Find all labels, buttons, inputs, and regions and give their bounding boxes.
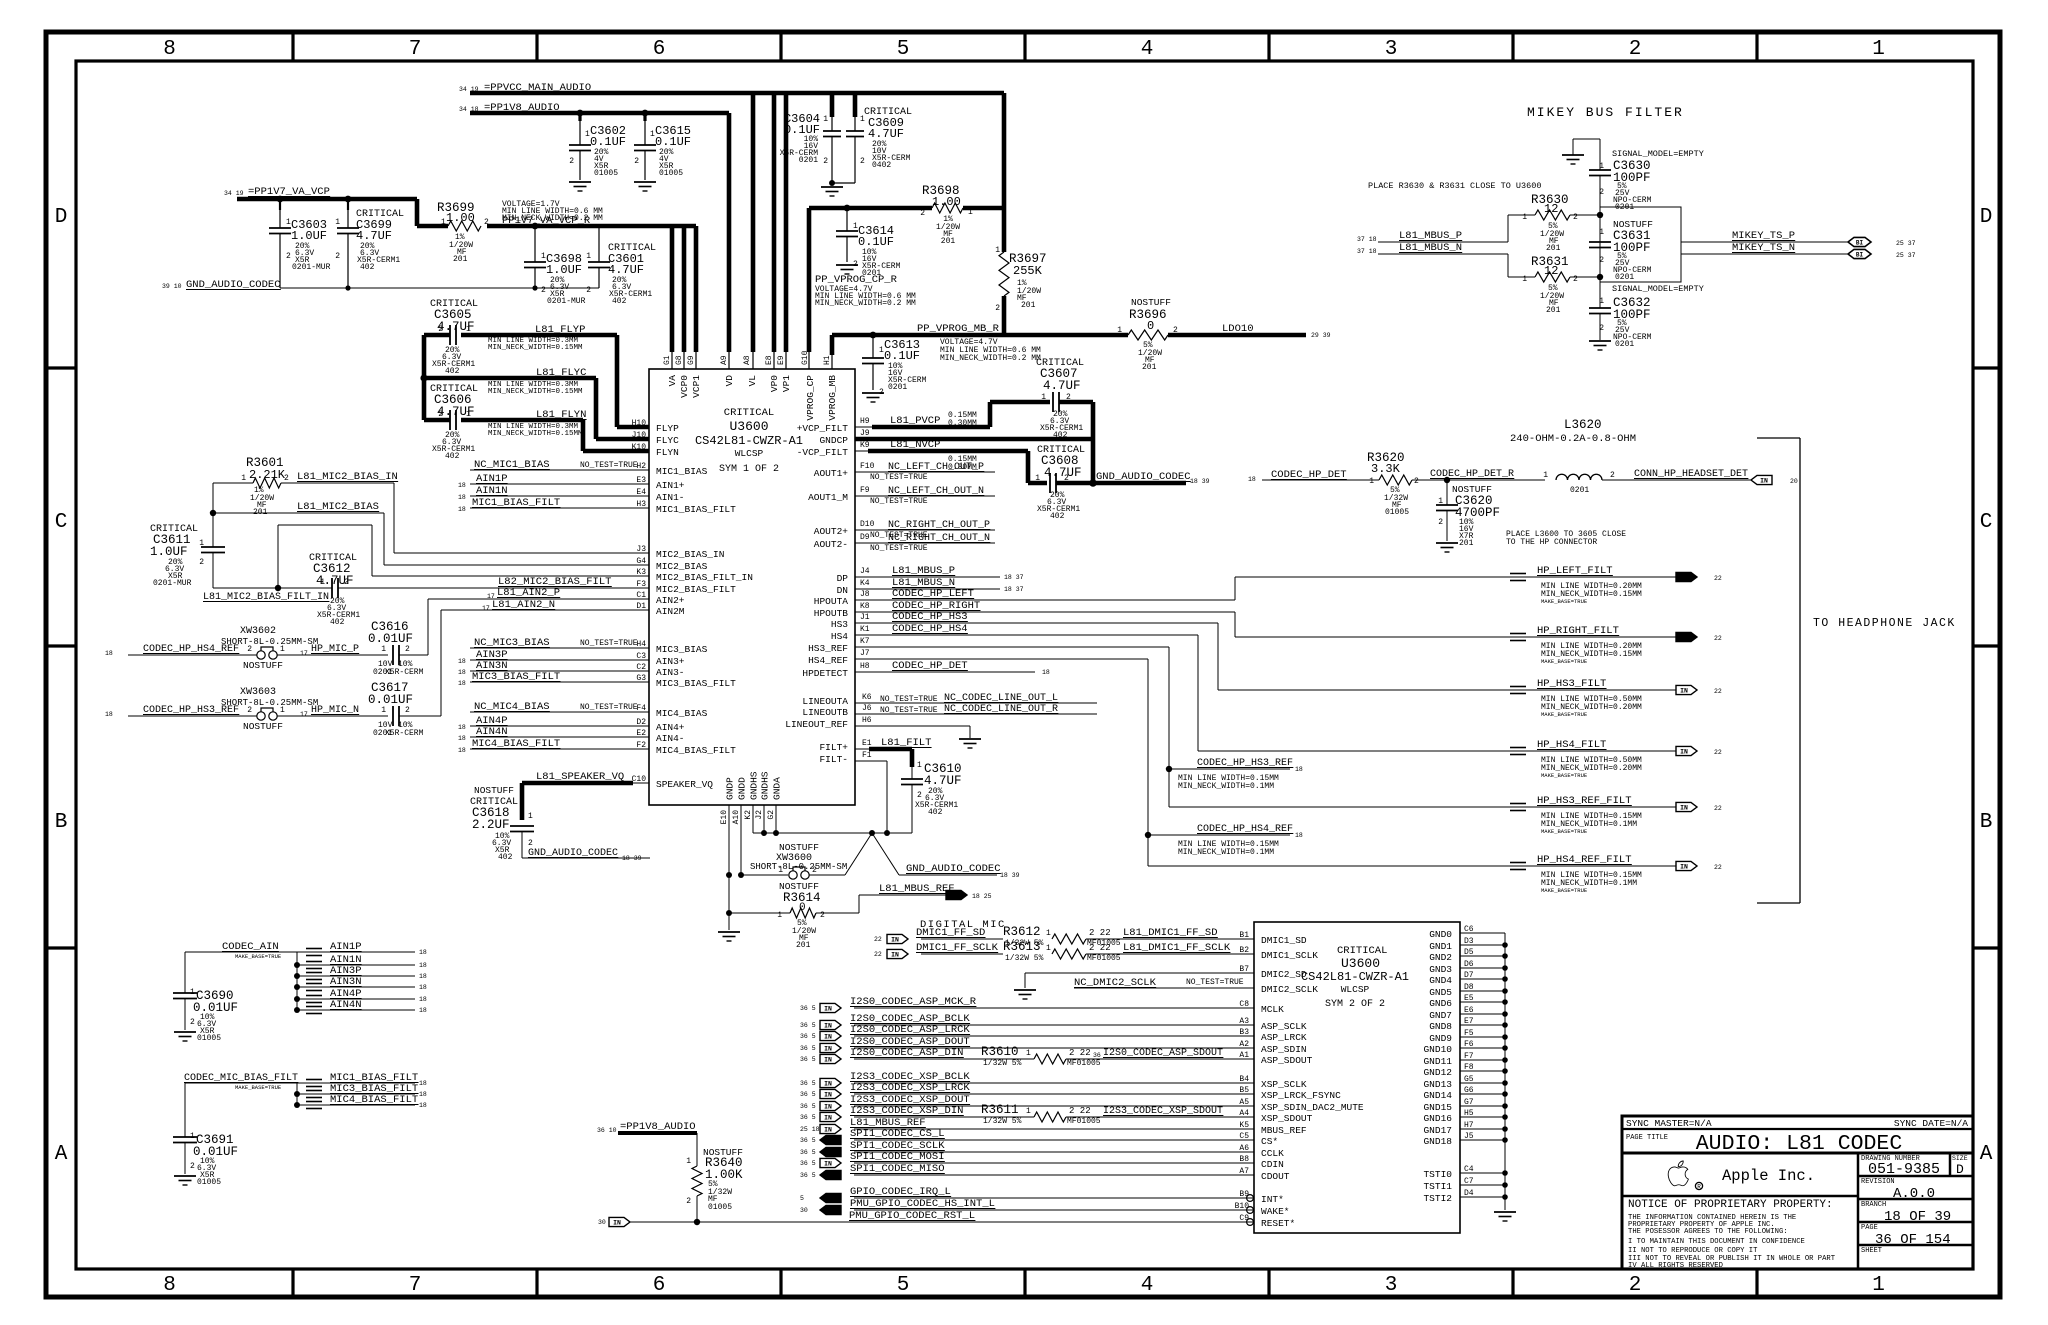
ground for C3613	[862, 392, 884, 394]
net HP_HS3_REF_FILT	[1169, 806, 1676, 808]
svg-text:D: D	[1980, 206, 1993, 229]
svg-text:18: 18	[419, 1080, 427, 1087]
svg-text:MIN_NECK_WIDTH=0.1MM: MIN_NECK_WIDTH=0.1MM	[1178, 782, 1274, 791]
svg-text:2: 2	[1414, 477, 1419, 486]
svg-text:K2: K2	[744, 810, 753, 820]
svg-text:IV ALL RIGHTS RESERVED: IV ALL RIGHTS RESERVED	[1628, 1262, 1723, 1270]
svg-text:2: 2	[190, 1162, 195, 1171]
svg-text:1: 1	[1543, 471, 1548, 480]
capacitor C3691	[184, 1083, 186, 1137]
svg-text:B: B	[1980, 811, 1993, 834]
net HP_HS4_FILT	[1197, 635, 1199, 751]
svg-text:2: 2	[1438, 518, 1443, 527]
net L82_MIC2_BIAS_FILT	[338, 587, 649, 589]
svg-text:XW3603: XW3603	[240, 687, 276, 698]
svg-text:8: 8	[163, 1274, 176, 1297]
svg-text:H6: H6	[862, 716, 872, 725]
svg-text:0: 0	[1147, 319, 1154, 333]
ground for LINEOUT_REF	[959, 738, 981, 740]
capacitor C3602	[577, 110, 584, 117]
svg-text:MIN_NECK_WIDTH=0.15MM: MIN_NECK_WIDTH=0.15MM	[488, 430, 583, 438]
svg-text:4.7UF: 4.7UF	[868, 127, 904, 141]
svg-text:2 22: 2 22	[1089, 928, 1111, 938]
svg-text:5: 5	[897, 1274, 910, 1297]
svg-text:1: 1	[860, 115, 865, 124]
svg-text:GND3: GND3	[1429, 964, 1452, 975]
svg-text:1: 1	[466, 325, 471, 334]
net CODEC_HP_HS4_REF branch	[1147, 659, 1149, 866]
svg-text:SIGNAL_MODEL=EMPTY: SIGNAL_MODEL=EMPTY	[1612, 149, 1704, 159]
svg-text:TSTI0: TSTI0	[1423, 1169, 1452, 1180]
ground for C3604 C3609	[821, 186, 843, 188]
svg-text:MIC4_BIAS: MIC4_BIAS	[656, 708, 708, 719]
svg-text:D: D	[55, 206, 68, 229]
svg-text:2: 2	[247, 645, 252, 654]
wire PP1V7 corner to R3699	[415, 199, 420, 226]
net AIN3N stub	[294, 984, 300, 990]
AIN collector	[296, 952, 298, 1010]
svg-text:VA: VA	[667, 375, 678, 387]
svg-text:NOSTUFF: NOSTUFF	[243, 721, 283, 732]
svg-text:MIN_NECK_WIDTH=0.1MM: MIN_NECK_WIDTH=0.1MM	[1178, 848, 1274, 857]
svg-text:WLCSP: WLCSP	[1341, 984, 1370, 995]
net NC_MIC1_BIAS	[470, 469, 649, 471]
svg-text:X5R-CERM: X5R-CERM	[385, 668, 424, 677]
wire VL supply drop	[751, 93, 756, 352]
svg-text:SIGNAL_MODEL=EMPTY: SIGNAL_MODEL=EMPTY	[1612, 284, 1704, 294]
net MIKEY_TS_N	[1681, 253, 1848, 255]
svg-text:18 39: 18 39	[1000, 872, 1020, 879]
svg-text:01005: 01005	[708, 1203, 732, 1212]
svg-text:GND12: GND12	[1423, 1067, 1452, 1078]
svg-text:39 10: 39 10	[162, 283, 182, 290]
wire C3604/C3609 ground join	[832, 182, 855, 184]
svg-text:K4: K4	[860, 579, 870, 588]
svg-text:R3612: R3612	[1003, 925, 1041, 939]
svg-text:2: 2	[541, 286, 546, 295]
svg-text:MIN_NECK_WIDTH=0.15MM: MIN_NECK_WIDTH=0.15MM	[488, 344, 583, 352]
svg-text:A9: A9	[720, 355, 729, 365]
svg-text:H9: H9	[860, 417, 870, 426]
svg-text:2: 2	[1629, 1274, 1642, 1297]
svg-text:XSP_SDIN_DAC2_MUTE: XSP_SDIN_DAC2_MUTE	[1261, 1102, 1364, 1113]
svg-text:GND11: GND11	[1423, 1056, 1452, 1067]
svg-text:4: 4	[1141, 38, 1154, 61]
svg-text:DMIC2_SCLK: DMIC2_SCLK	[1261, 984, 1318, 995]
svg-text:F10: F10	[860, 462, 875, 471]
svg-text:IN: IN	[613, 1219, 621, 1226]
svg-text:MIC3_BIAS_FILT: MIC3_BIAS_FILT	[656, 678, 736, 689]
svg-text:201: 201	[1142, 363, 1157, 372]
svg-text:CRITICAL: CRITICAL	[724, 407, 774, 419]
svg-text:GNDHS: GNDHS	[749, 771, 760, 800]
svg-text:1: 1	[381, 645, 386, 654]
svg-text:1: 1	[995, 246, 1000, 255]
svg-text:6: 6	[653, 1274, 666, 1297]
svg-text:MAKE_BASE=TRUE: MAKE_BASE=TRUE	[1541, 598, 1588, 605]
svg-text:K8: K8	[860, 602, 870, 611]
svg-text:402: 402	[1050, 512, 1065, 521]
net PP_VPROG_MB_R	[832, 333, 1128, 338]
svg-text:3: 3	[1385, 1274, 1398, 1297]
svg-text:1: 1	[1872, 38, 1885, 61]
svg-text:SPEAKER_VQ: SPEAKER_VQ	[656, 779, 713, 790]
svg-text:D: D	[1956, 1162, 1964, 1177]
svg-text:1/32W 5%: 1/32W 5%	[1005, 954, 1044, 963]
svg-text:2: 2	[820, 911, 825, 920]
Apple logo	[1668, 1161, 1688, 1186]
svg-text:C: C	[1980, 511, 1993, 534]
ground for sym2	[1494, 1211, 1516, 1213]
svg-text:7: 7	[409, 38, 422, 61]
svg-text:25 18: 25 18	[800, 1126, 820, 1133]
svg-text:36 5: 36 5	[800, 1114, 816, 1121]
svg-text:18 39: 18 39	[1190, 478, 1210, 485]
svg-text:ASP_SCLK: ASP_SCLK	[1261, 1021, 1307, 1032]
wire GNDP GNDD drops	[728, 805, 730, 930]
svg-text:D9: D9	[860, 533, 870, 542]
svg-text:J10: J10	[632, 431, 647, 440]
svg-text:201: 201	[453, 255, 468, 264]
svg-text:PAGE: PAGE	[1861, 1224, 1878, 1232]
svg-text:GND18: GND18	[1423, 1136, 1452, 1147]
net AIN4N stub	[294, 1007, 300, 1013]
capacitor C3690	[184, 952, 186, 993]
svg-text:VCP0: VCP0	[679, 375, 690, 398]
svg-text:NOSTUFF: NOSTUFF	[779, 842, 819, 853]
svg-text:DMIC1_SD: DMIC1_SD	[1261, 935, 1307, 946]
net NC_MIC3_BIAS	[470, 647, 649, 649]
svg-text:0201: 0201	[1615, 273, 1634, 282]
svg-text:2: 2	[1573, 275, 1578, 284]
svg-text:AUDIO: L81 CODEC: AUDIO: L81 CODEC	[1696, 1132, 1902, 1156]
svg-text:1: 1	[280, 706, 285, 715]
svg-text:2: 2	[1573, 213, 1578, 222]
capacitor C3610	[911, 767, 913, 779]
svg-text:1/32W 5%: 1/32W 5%	[983, 1117, 1022, 1126]
net NC_DMIC2_SCLK and ground	[1024, 973, 1026, 988]
title block drawing number cell	[1858, 1175, 1973, 1178]
svg-text:18: 18	[458, 680, 466, 687]
svg-text:PAGE TITLE: PAGE TITLE	[1626, 1134, 1668, 1142]
svg-text:0201-MUR: 0201-MUR	[547, 297, 586, 306]
svg-text:CDIN: CDIN	[1261, 1159, 1284, 1170]
svg-text:2 22: 2 22	[1069, 1048, 1091, 1058]
svg-text:GNDCP: GNDCP	[819, 435, 848, 446]
svg-text:0.01UF: 0.01UF	[368, 632, 413, 646]
svg-text:IN: IN	[824, 1103, 832, 1110]
svg-text:LINEOUTA: LINEOUTA	[802, 696, 848, 707]
svg-text:CDOUT: CDOUT	[1261, 1171, 1290, 1182]
svg-text:01005: 01005	[197, 1178, 221, 1187]
svg-text:01005: 01005	[594, 169, 618, 178]
svg-text:AIN1+: AIN1+	[656, 480, 685, 491]
svg-text:IN: IN	[824, 1045, 832, 1052]
svg-text:1: 1	[777, 911, 782, 920]
ground for C3614	[836, 264, 858, 266]
svg-text:22: 22	[1714, 635, 1722, 642]
svg-text:20: 20	[1790, 478, 1798, 485]
svg-text:1: 1	[335, 218, 340, 227]
svg-text:2 22: 2 22	[1069, 1106, 1091, 1116]
capacitor C3699	[345, 196, 352, 203]
svg-text:0.01UF: 0.01UF	[368, 693, 413, 707]
svg-text:E9: E9	[777, 355, 786, 365]
svg-text:DMIC2_SD: DMIC2_SD	[1261, 969, 1307, 980]
svg-text:R: R	[1697, 1184, 1701, 1191]
svg-text:VP0: VP0	[769, 375, 780, 392]
net MIC1_BIAS_FILT stub	[297, 1082, 415, 1084]
svg-text:VPROG_MB: VPROG_MB	[827, 375, 838, 421]
ground above C3630	[1562, 154, 1584, 156]
svg-text:NOSTUFF: NOSTUFF	[243, 660, 283, 671]
svg-text:BI: BI	[1856, 239, 1864, 246]
svg-text:201: 201	[1546, 306, 1561, 315]
svg-text:1: 1	[686, 1157, 691, 1166]
svg-text:37 18: 37 18	[1357, 236, 1377, 243]
svg-text:GNDA: GNDA	[772, 777, 783, 800]
svg-text:NO_TEST=TRUE: NO_TEST=TRUE	[870, 497, 928, 506]
resistor R3697	[1002, 208, 1007, 252]
svg-text:1: 1	[917, 761, 922, 770]
svg-text:18: 18	[1295, 766, 1303, 773]
svg-text:K9: K9	[860, 441, 870, 450]
svg-text:36 5: 36 5	[800, 1160, 816, 1167]
svg-text:402: 402	[445, 452, 460, 461]
svg-text:1: 1	[778, 866, 783, 875]
svg-text:IN: IN	[824, 1005, 832, 1012]
svg-text:HS4_REF: HS4_REF	[808, 655, 848, 666]
svg-text:MAKE_BASE=TRUE: MAKE_BASE=TRUE	[235, 1084, 282, 1091]
svg-text:17: 17	[300, 711, 308, 718]
svg-text:36 5: 36 5	[800, 1033, 816, 1040]
svg-text:X5R-CERM: X5R-CERM	[385, 729, 424, 738]
svg-text:IN: IN	[824, 1022, 832, 1029]
net L81_FLYC	[424, 376, 596, 381]
svg-text:36 5: 36 5	[800, 1149, 816, 1156]
svg-text:0201-MUR: 0201-MUR	[153, 579, 192, 588]
net LDO10	[1168, 333, 1306, 338]
svg-text:IN: IN	[1680, 687, 1688, 694]
svg-text:1: 1	[1026, 1107, 1031, 1116]
net HP_LEFT_FILT	[1234, 577, 1236, 600]
svg-text:J6: J6	[862, 704, 872, 713]
wire VP1 supply drop	[784, 93, 789, 352]
svg-text:18: 18	[105, 650, 113, 657]
svg-text:FLYC: FLYC	[656, 435, 679, 446]
svg-text:0201: 0201	[1615, 340, 1634, 349]
svg-text:SIZE: SIZE	[1952, 1155, 1968, 1162]
svg-text:DMIC1_SCLK: DMIC1_SCLK	[1261, 950, 1318, 961]
svg-text:IN: IN	[1680, 863, 1688, 870]
svg-text:MIC1_BIAS_FILT: MIC1_BIAS_FILT	[656, 504, 736, 515]
op-amp U3600 CS42L81-CWZR-A1 SYM 2 OF 2	[1254, 922, 1460, 1233]
svg-text:GND5: GND5	[1429, 987, 1452, 998]
svg-text:AIN4+: AIN4+	[656, 722, 685, 733]
svg-text:2: 2	[686, 1197, 691, 1206]
svg-text:MIN_NECK_WIDTH=0.15MM: MIN_NECK_WIDTH=0.15MM	[488, 388, 583, 396]
svg-text:MAKE_BASE=TRUE: MAKE_BASE=TRUE	[1541, 828, 1588, 835]
ground below C3632	[1589, 340, 1611, 342]
capacitor C3603	[277, 196, 284, 203]
svg-text:30: 30	[598, 1219, 606, 1226]
svg-text:2: 2	[569, 157, 574, 166]
svg-text:18: 18	[419, 984, 427, 991]
svg-text:2: 2	[860, 157, 865, 166]
svg-text:PP_VPROG_MB_R: PP_VPROG_MB_R	[917, 323, 1000, 335]
svg-text:4.7UF: 4.7UF	[608, 263, 644, 277]
svg-text:4.7UF: 4.7UF	[356, 229, 392, 243]
svg-text:BI: BI	[1856, 251, 1864, 258]
svg-text:HS3: HS3	[831, 619, 848, 630]
svg-text:NO_TEST=TRUE: NO_TEST=TRUE	[580, 461, 638, 470]
svg-text:1: 1	[1522, 275, 1527, 284]
ground bus under U3600	[753, 832, 912, 834]
svg-text:NO_TEST=TRUE: NO_TEST=TRUE	[870, 473, 928, 482]
svg-text:36 5: 36 5	[800, 1080, 816, 1087]
svg-text:H1: H1	[823, 355, 832, 365]
svg-text:MIC2_BIAS_IN: MIC2_BIAS_IN	[656, 549, 724, 560]
net MIC4_BIAS_FILT stub	[294, 1102, 300, 1108]
svg-text:G9: G9	[687, 355, 696, 365]
svg-text:25 37: 25 37	[1896, 252, 1916, 259]
ground for GNDP	[718, 931, 740, 933]
svg-text:F9: F9	[860, 486, 870, 495]
net MIC3_BIAS_FILT stub	[294, 1091, 300, 1097]
svg-text:OUT: OUT	[827, 1207, 839, 1214]
svg-text:2: 2	[1610, 471, 1615, 480]
svg-text:22: 22	[1714, 864, 1722, 871]
svg-text:OUT: OUT	[1678, 574, 1690, 581]
svg-text:0201: 0201	[1570, 486, 1589, 495]
ground below C3691	[174, 1175, 196, 1177]
svg-text:SYM 2 OF 2: SYM 2 OF 2	[1325, 999, 1385, 1010]
svg-text:IN: IN	[1680, 748, 1688, 755]
svg-text:REVISION: REVISION	[1861, 1178, 1895, 1186]
net MIKEY_TS_P	[1681, 241, 1848, 243]
svg-text:E1: E1	[862, 739, 872, 748]
wire PP_VPROG_CP_R rail	[809, 206, 932, 211]
svg-text:2: 2	[405, 706, 410, 715]
svg-text:18: 18	[458, 735, 466, 742]
svg-text:IN: IN	[1760, 477, 1768, 484]
svg-text:TSTI1: TSTI1	[1423, 1181, 1452, 1192]
svg-text:A8: A8	[743, 355, 752, 365]
wire VA drop	[670, 226, 675, 352]
svg-text:MIC4_BIAS_FILT: MIC4_BIAS_FILT	[656, 745, 736, 756]
svg-text:VCP1: VCP1	[691, 375, 702, 398]
svg-text:K6: K6	[862, 693, 872, 702]
net CODEC_HP_DET_R	[1412, 479, 1545, 481]
svg-text:18: 18	[419, 1102, 427, 1109]
svg-text:2: 2	[438, 325, 443, 334]
ground below C3690	[174, 1031, 196, 1033]
svg-text:18 37: 18 37	[1004, 574, 1024, 581]
svg-text:J4: J4	[860, 567, 870, 576]
net HP_HS3_FILT	[1217, 623, 1219, 690]
svg-text:18: 18	[419, 1091, 427, 1098]
svg-text:MIN_NECK_WIDTH=0.2 MM: MIN_NECK_WIDTH=0.2 MM	[940, 354, 1041, 363]
svg-text:GNDHS: GNDHS	[760, 771, 771, 800]
wire VCP0 drop	[682, 226, 687, 352]
svg-text:C: C	[55, 511, 68, 534]
svg-text:4.7UF: 4.7UF	[1043, 379, 1081, 393]
svg-text:AIN3+: AIN3+	[656, 656, 685, 667]
net L81_MIC2_BIAS	[213, 512, 384, 514]
svg-text:CS42L81-CWZR-A1: CS42L81-CWZR-A1	[1301, 970, 1409, 984]
svg-text:GND14: GND14	[1423, 1090, 1452, 1101]
net HP_RIGHT_FILT	[1234, 612, 1236, 637]
svg-text:0.30MM: 0.30MM	[948, 419, 977, 428]
wire VP0 supply drop	[772, 93, 777, 352]
svg-text:THE POSESSOR AGREES TO THE FOL: THE POSESSOR AGREES TO THE FOLLOWING:	[1628, 1228, 1788, 1236]
capacitor C3631 NOSTUFF	[1600, 207, 1681, 282]
wire R3601 left leg	[212, 483, 214, 547]
svg-text:36: 36	[1093, 1052, 1101, 1059]
net AIN1P stub	[297, 951, 415, 953]
svg-text:18: 18	[419, 973, 427, 980]
svg-text:IN: IN	[824, 1126, 832, 1133]
svg-text:18: 18	[419, 1007, 427, 1014]
svg-text:ASP_SDOUT: ASP_SDOUT	[1261, 1055, 1313, 1066]
svg-text:18: 18	[419, 996, 427, 1003]
svg-text:IN: IN	[1680, 804, 1688, 811]
svg-text:22: 22	[1714, 749, 1722, 756]
svg-text:25 37: 25 37	[1896, 240, 1916, 247]
svg-text:F1: F1	[862, 751, 872, 760]
svg-text:2: 2	[528, 839, 533, 848]
svg-text:240-OHM-0.2A-0.8-OHM: 240-OHM-0.2A-0.8-OHM	[1510, 433, 1636, 445]
svg-text:A: A	[55, 1143, 68, 1166]
svg-text:1: 1	[1599, 297, 1604, 306]
svg-text:B: B	[55, 811, 68, 834]
svg-text:18 39: 18 39	[622, 855, 642, 862]
net GND_AUDIO_CODEC bus right	[1056, 481, 1186, 486]
svg-text:OUT: OUT	[827, 1149, 839, 1156]
svg-text:GND7: GND7	[1429, 1010, 1452, 1021]
ground for C3615	[634, 181, 656, 183]
svg-text:18: 18	[458, 669, 466, 676]
svg-text:2: 2	[812, 866, 817, 875]
svg-text:18: 18	[458, 506, 466, 513]
capacitor C3615	[642, 110, 649, 117]
svg-text:VP1: VP1	[781, 375, 792, 392]
svg-text:1.0UF: 1.0UF	[546, 263, 582, 277]
ground for C3602	[569, 181, 591, 183]
wire PPVCC drop to R3698	[1002, 93, 1007, 208]
wire VD supply drop	[727, 113, 732, 352]
svg-text:18: 18	[1295, 832, 1303, 839]
svg-text:WLCSP: WLCSP	[735, 448, 764, 459]
svg-text:XSP_SCLK: XSP_SCLK	[1261, 1079, 1307, 1090]
svg-text:G8: G8	[675, 355, 684, 365]
svg-text:GND1: GND1	[1429, 941, 1452, 952]
svg-text:2: 2	[438, 410, 443, 419]
pin circles INT WAKE RESET	[1247, 1195, 1254, 1202]
svg-text:MIC2_BIAS_FILT: MIC2_BIAS_FILT	[656, 584, 736, 595]
svg-text:1: 1	[241, 474, 246, 483]
svg-text:36 5: 36 5	[800, 1005, 816, 1012]
svg-text:402: 402	[330, 618, 345, 627]
ground below C3620	[1436, 542, 1458, 544]
svg-text:36 10: 36 10	[597, 1127, 617, 1134]
svg-text:2: 2	[335, 252, 340, 261]
capacitor C3604	[830, 93, 835, 117]
svg-text:402: 402	[498, 853, 513, 862]
svg-text:H10: H10	[632, 419, 647, 428]
capacitor C3607	[990, 400, 1050, 405]
resistor R3640 NOSTUFF	[696, 1133, 698, 1166]
